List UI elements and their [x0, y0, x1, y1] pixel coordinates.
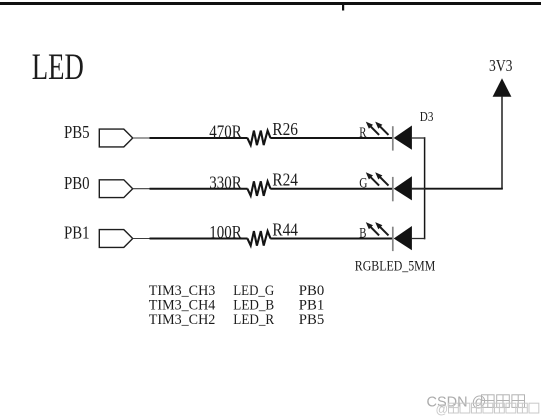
- svg-text:B: B: [359, 225, 366, 241]
- svg-text:3V3: 3V3: [489, 56, 513, 75]
- svg-text:LED_G: LED_G: [233, 283, 274, 299]
- svg-text:100R: 100R: [209, 222, 242, 242]
- led emission arrows R: [371, 127, 379, 135]
- wire LED G to common: [412, 188, 425, 190]
- svg-text:330R: 330R: [209, 172, 242, 192]
- resistor R26 zigzag: [247, 131, 270, 146]
- svg-text:TIM3_CH4: TIM3_CH4: [149, 298, 216, 314]
- svg-text:RGBLED_5MM: RGBLED_5MM: [355, 257, 436, 274]
- led triangle B: [394, 226, 412, 250]
- port PB5: [99, 129, 132, 147]
- wire G row to 3V3: [412, 188, 503, 190]
- svg-text:PB0: PB0: [64, 173, 90, 193]
- port PB1: [99, 230, 132, 248]
- border tick mark: [342, 5, 344, 11]
- wire PB5 to R26: [150, 137, 248, 139]
- resistor R24 zigzag: [247, 181, 270, 196]
- led emission arrows B: [371, 227, 379, 235]
- wire PB5 pin stub: [133, 137, 150, 139]
- sheet border top: [0, 2, 541, 5]
- svg-text:D3: D3: [420, 110, 434, 125]
- svg-text:PB5: PB5: [299, 312, 324, 328]
- svg-text:LED_R: LED_R: [233, 312, 274, 328]
- port PB0: [99, 180, 132, 198]
- led cathode bar R: [392, 126, 394, 150]
- svg-text:PB1: PB1: [299, 298, 324, 314]
- svg-text:TIM3_CH3: TIM3_CH3: [149, 283, 216, 299]
- svg-text:PB5: PB5: [64, 122, 90, 142]
- svg-text:G: G: [359, 176, 368, 192]
- wire R44 to LED B: [270, 238, 392, 240]
- power symbol 3V3 arrow: [493, 78, 512, 97]
- resistor R44 zigzag: [247, 231, 270, 246]
- wire R26 to LED R: [270, 137, 392, 139]
- wire PB1 pin stub: [133, 238, 150, 240]
- led cathode bar B: [392, 227, 394, 251]
- svg-text:PB0: PB0: [299, 283, 324, 299]
- wire LED R to common: [412, 137, 425, 139]
- led triangle G: [394, 176, 412, 200]
- wire LED B to common: [412, 238, 425, 240]
- svg-text:R: R: [359, 125, 366, 141]
- watermark CSDN cjk glyphs: [482, 395, 495, 408]
- led cathode bar G: [392, 177, 394, 201]
- svg-text:LED: LED: [32, 46, 84, 87]
- svg-text:R24: R24: [272, 170, 298, 190]
- svg-text:R44: R44: [272, 219, 298, 239]
- led triangle R: [394, 126, 412, 150]
- svg-text:470R: 470R: [209, 122, 242, 142]
- led emission arrows G: [371, 177, 379, 185]
- svg-text:LED_B: LED_B: [233, 298, 274, 314]
- wire 3V3 stem: [501, 97, 503, 189]
- wire PB0 to R24: [150, 188, 248, 190]
- svg-text:PB1: PB1: [64, 223, 90, 243]
- svg-text:TIM3_CH2: TIM3_CH2: [149, 312, 216, 328]
- wire LED common vertical: [424, 137, 426, 239]
- wire PB0 pin stub: [133, 188, 150, 190]
- svg-text:@: @: [436, 402, 449, 416]
- svg-text:R26: R26: [272, 119, 298, 139]
- wire R24 to LED G: [270, 188, 392, 190]
- wire PB1 to R44: [150, 238, 248, 240]
